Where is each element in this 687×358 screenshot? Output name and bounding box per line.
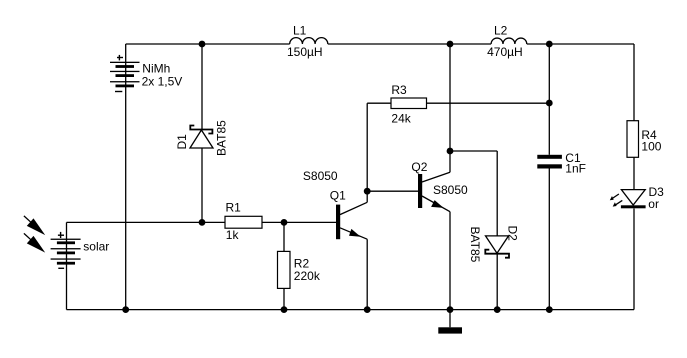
svg-text:220k: 220k: [294, 269, 321, 283]
svg-text:L2: L2: [494, 23, 508, 37]
svg-text:NiMh: NiMh: [142, 62, 170, 76]
svg-text:D1: D1: [175, 134, 189, 150]
svg-text:L1: L1: [293, 23, 307, 37]
svg-text:1k: 1k: [226, 228, 240, 242]
svg-text:BAT85: BAT85: [468, 227, 482, 263]
svg-text:150µH: 150µH: [287, 45, 323, 59]
svg-text:S8050: S8050: [303, 169, 338, 183]
svg-text:2x 1,5V: 2x 1,5V: [142, 75, 183, 89]
svg-text:Q1: Q1: [330, 189, 346, 203]
svg-text:1nF: 1nF: [565, 162, 586, 176]
svg-text:Q2: Q2: [411, 160, 427, 174]
svg-text:S8050: S8050: [433, 183, 468, 197]
svg-text:R1: R1: [226, 201, 242, 215]
svg-text:470µH: 470µH: [487, 45, 523, 59]
svg-text:R3: R3: [391, 83, 407, 97]
svg-text:solar: solar: [83, 240, 109, 254]
svg-text:or: or: [648, 197, 659, 211]
svg-text:24k: 24k: [391, 111, 411, 125]
svg-text:BAT85: BAT85: [215, 120, 229, 156]
svg-text:D2: D2: [506, 226, 520, 242]
svg-text:100: 100: [641, 139, 661, 153]
